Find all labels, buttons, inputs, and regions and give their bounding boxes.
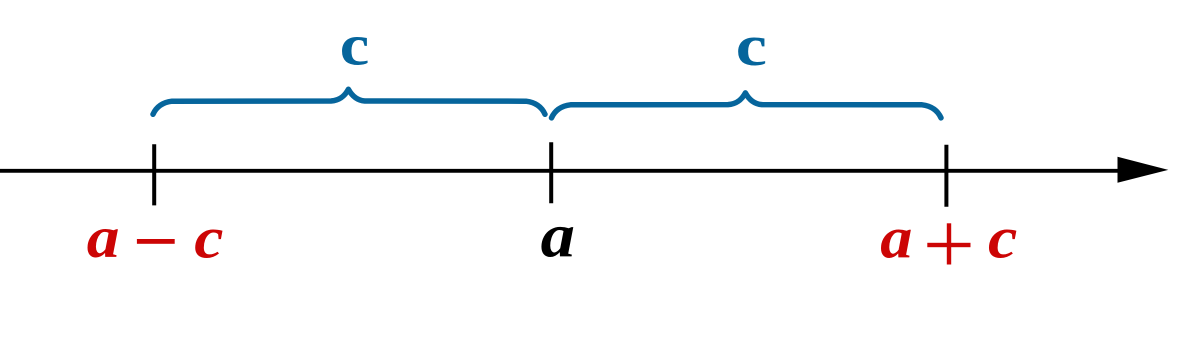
svg-text:c: c xyxy=(194,205,223,271)
svg-text:c: c xyxy=(340,13,369,77)
svg-text:c: c xyxy=(736,14,767,78)
svg-text:a: a xyxy=(880,206,912,271)
svg-text:a: a xyxy=(87,205,120,270)
svg-text:a: a xyxy=(541,202,575,270)
svg-text:c: c xyxy=(988,205,1017,271)
